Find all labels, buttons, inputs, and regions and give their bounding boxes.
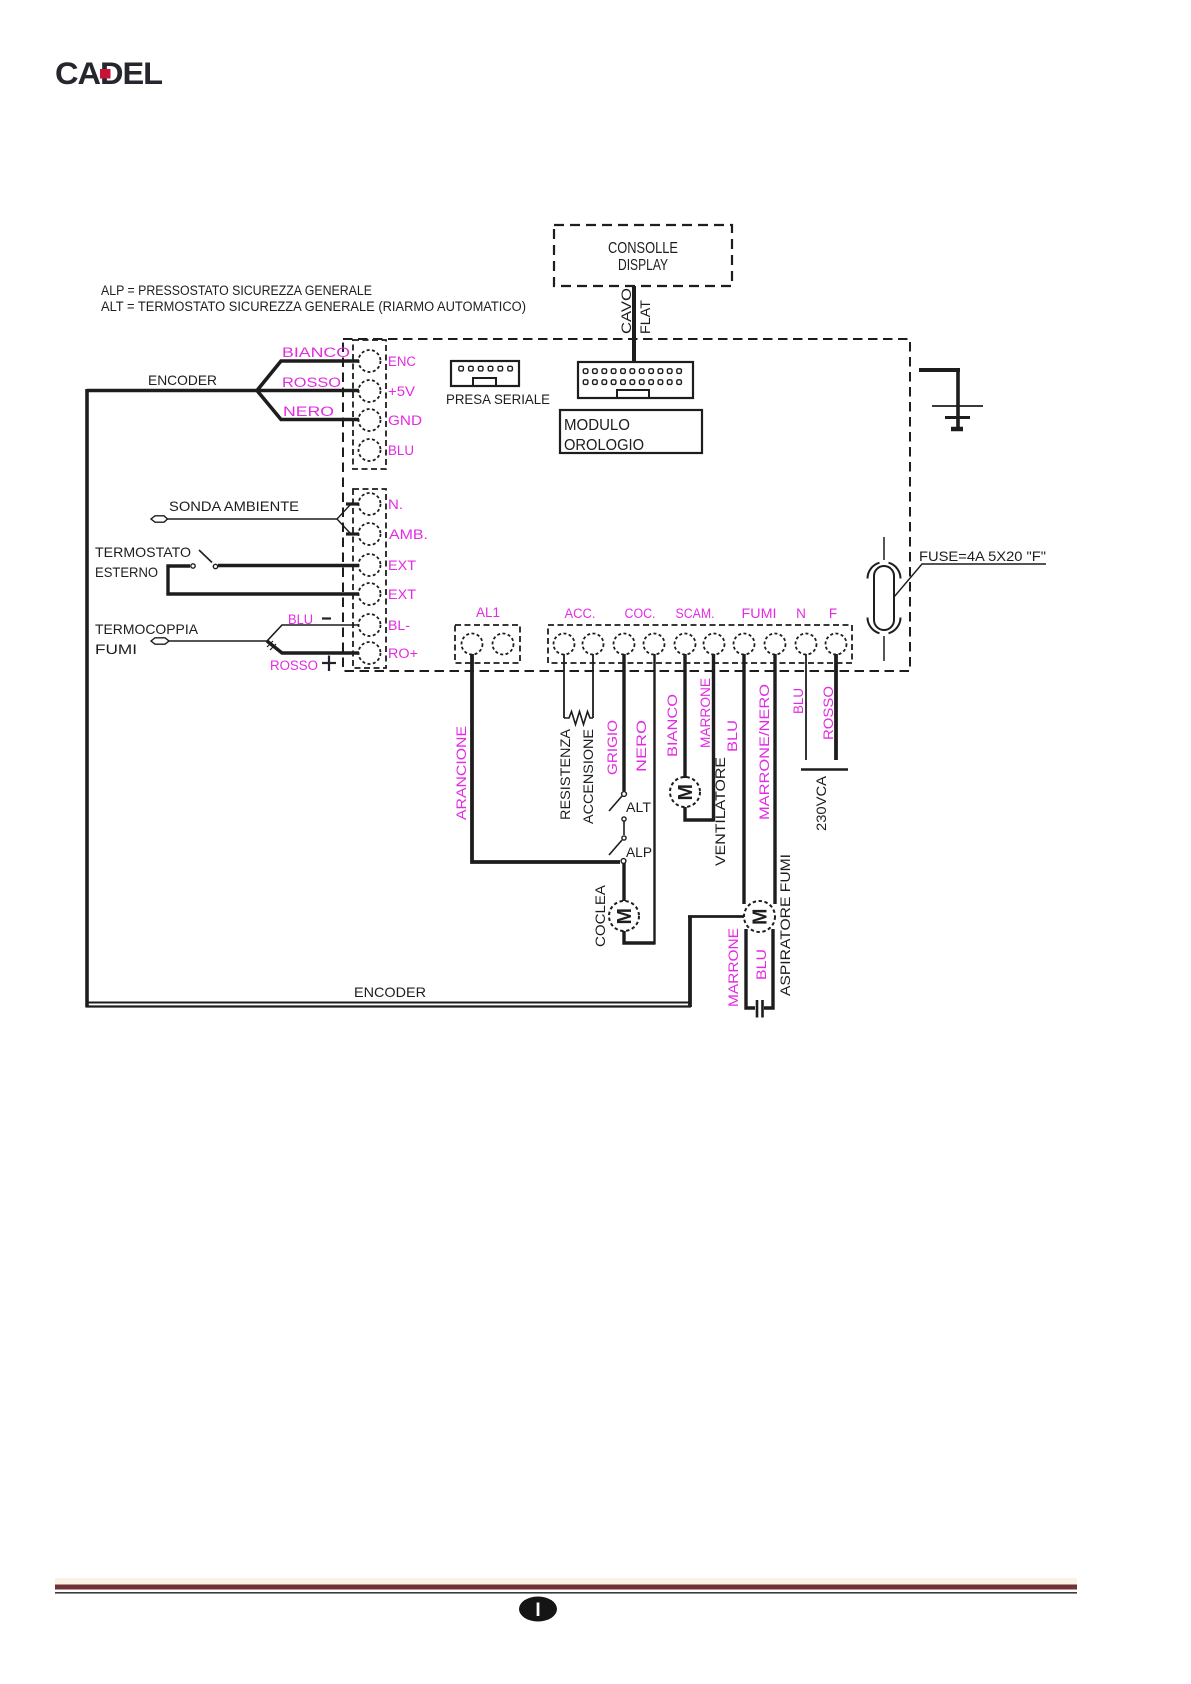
svg-text:230VCA: 230VCA [814,776,829,831]
terminal COC-2 [644,634,665,655]
connector AL1 dashed housing [455,625,520,663]
flat connector pins row 1 [583,369,681,374]
svg-text:MARRONE: MARRONE [726,928,741,1007]
footer thin rule [55,1592,1077,1594]
wire termocoppia [169,640,267,642]
wire encoder riser [688,916,692,1007]
svg-text:ROSSO: ROSSO [270,658,318,673]
motor ASPIRATORE FUMI [744,901,775,932]
svg-text:ALT: ALT [626,799,651,815]
J2 pin circle EXT1 [359,554,381,576]
svg-text:ENC: ENC [388,354,416,369]
switch contact circle right [213,564,217,568]
J1 pin circle GND [359,409,381,431]
svg-text:ALP: ALP [626,844,652,860]
svg-text:ALP = PRESSOSTATO SICUREZZA GE: ALP = PRESSOSTATO SICUREZZA GENERALE [101,283,372,298]
page number badge I [519,1597,557,1622]
svg-text:AMB.: AMB. [389,527,428,542]
svg-text:I: I [535,1600,540,1621]
svg-text:ROSSO: ROSSO [821,686,836,740]
terminal SCAM-1 [675,634,696,655]
wire BLU fumi [742,654,745,904]
svg-text:NERO: NERO [283,404,334,419]
wire MARRONE (scam) [712,654,715,822]
svg-text:RO+: RO+ [388,646,418,661]
svg-text:M: M [675,784,697,801]
wire encoder left vertical [85,389,89,1007]
wire ACC right [592,654,594,718]
svg-text:OROLOGIO: OROLOGIO [564,437,644,454]
sonda probe symbol [151,516,168,522]
output terminal strip dashed housing [548,625,852,663]
svg-text:ESTERNO: ESTERNO [95,564,158,580]
wire NERO [653,654,655,945]
minus sign [322,617,331,619]
svg-text:ENCODER: ENCODER [148,372,217,388]
svg-text:BLU: BLU [725,720,740,752]
terminal COC-1 [614,634,635,655]
J1 pin circle BLU [359,439,381,461]
switch ALT blade [609,796,622,811]
wire MARRONE/NERO fumi [773,654,776,904]
wire encoder bottom double line lower [86,1005,692,1007]
svg-text:CONSOLLE: CONSOLLE [608,240,678,257]
switch ALT contact bottom [622,817,626,821]
wire ROSSO to +5V [257,389,359,393]
J1 pin circle +5V [359,380,381,402]
J1 pin circle ENC [359,350,381,372]
wire stub N [346,502,359,505]
wire ROSSO to RO+ [267,641,359,653]
presa seriale pins [459,366,513,371]
consolle display box [554,225,732,286]
svg-text:FLAT: FLAT [638,300,653,334]
flat connector pins row 2 [583,380,681,385]
svg-text:EXT: EXT [388,558,416,573]
wire BIANCO to ventilatore [683,654,686,778]
svg-text:BLU: BLU [791,688,806,714]
svg-text:FUSE=4A 5X20 "F": FUSE=4A 5X20 "F" [919,548,1046,564]
wire sonda branch AMB [337,519,352,534]
wire cavo flat [632,286,636,362]
wire ventilatore bottom to MARRONE [685,807,714,820]
modulo orologio box [560,410,702,454]
presa seriale connector [451,361,519,386]
svg-text:BLU: BLU [288,612,313,627]
wire N (BLU) [805,654,807,760]
svg-text:ASPIRATORE FUMI: ASPIRATORE FUMI [778,854,793,996]
terminal AL1-2 [493,634,514,655]
svg-text:FUMI: FUMI [95,641,137,657]
wire ACC left [563,654,565,718]
motor VENTILATORE [670,777,700,807]
wire coclea bottom to NERO [624,931,655,943]
switch contact circle left [191,564,195,568]
wire ARANCIONE (AL1 to ALP) [472,654,620,862]
svg-text:BL-: BL- [388,618,410,633]
wire NERO to GND [257,391,359,420]
svg-text:N.: N. [388,497,403,512]
terminal SCAM-2 [704,634,725,655]
capacitor C1 [757,1000,763,1018]
switch ALP contact bottom [621,859,626,864]
svg-text:COC.: COC. [625,606,656,621]
wire ALP to coclea motor [622,863,625,901]
svg-text:M: M [750,909,772,926]
J2 pin circle EXT2 [359,583,381,605]
svg-text:TERMOSTATO: TERMOSTATO [95,544,191,560]
fuse F1 [868,537,901,661]
svg-text:SCAM.: SCAM. [676,606,715,621]
wire encoder trunk [87,389,257,393]
control board outline (dashed) [343,339,910,671]
svg-text:F: F [829,606,837,621]
wire EXT1 from switch [218,564,359,568]
svg-text:PRESA SERIALE: PRESA SERIALE [446,391,550,407]
wire sonda branch N [337,504,352,519]
wire F (ROSSO) [834,654,838,760]
svg-text:DISPLAY: DISPLAY [618,257,668,274]
svg-text:VENTILATORE: VENTILATORE [713,757,728,866]
switch termostato esterno blade [199,550,212,563]
svg-text:ALT = TERMOSTATO SICUREZZA GEN: ALT = TERMOSTATO SICUREZZA GENERALE (RIA… [101,299,526,314]
svg-text:EXT: EXT [388,587,416,602]
svg-text:BIANCO: BIANCO [282,345,350,360]
svg-text:GRIGIO: GRIGIO [605,720,620,775]
switch ALT contact top [622,792,627,797]
flat cable connector [578,362,693,398]
terminal FUMI-1 [734,634,755,655]
wire aspiratore BLU bottom [764,929,773,1008]
connector J2 (inputs) dashed housing [353,489,386,668]
terminal ACC-2 [583,634,604,655]
switch ALP contact top [622,836,626,840]
wire sonda [168,518,338,520]
wire GRIGIO [622,654,625,791]
svg-text:M: M [614,908,636,925]
wire aspiratore MARRONE bottom [746,929,755,1008]
terminal FUMI-2 [765,634,786,655]
svg-text:ACCENSIONE: ACCENSIONE [581,729,596,824]
svg-text:CAVO: CAVO [619,288,634,334]
terminal AL1-1 [462,634,483,655]
wire EXT2 L-shape [168,566,359,594]
footer maroon rule [55,1585,1077,1590]
svg-text:ENCODER: ENCODER [354,984,426,1000]
footer cream band [55,1578,1077,1585]
J2 pin circle AMB. [359,523,381,545]
svg-text:MODULO: MODULO [564,417,630,434]
J2 pin circle RO+ [359,642,381,664]
svg-text:FUMI: FUMI [742,606,777,621]
wire BLU to BL- [267,625,359,641]
J2 pin circle N. [359,493,381,515]
connector J1 (encoder) dashed housing [353,340,386,469]
svg-text:ROSSO: ROSSO [282,375,341,390]
230VCA bar [801,768,848,770]
svg-text:NERO: NERO [634,720,649,772]
svg-text:SONDA AMBIENTE: SONDA AMBIENTE [169,498,299,514]
ground symbol [919,368,983,429]
svg-text:ARANCIONE: ARANCIONE [454,726,469,820]
switch ALP blade [609,840,622,855]
fuse leader line [894,564,1046,597]
svg-text:BLU: BLU [388,443,414,458]
svg-text:ACC.: ACC. [565,606,596,621]
svg-text:AL1: AL1 [476,605,500,620]
terminal F [826,634,847,655]
wire between ALT and ALP [623,821,625,835]
wire stub AMB [346,532,359,535]
svg-text:RESISTENZA: RESISTENZA [558,729,573,820]
svg-text:COCLEA: COCLEA [593,885,608,947]
wire encoder bottom double line upper [87,1002,689,1004]
termocoppia probe symbol [151,638,169,644]
thermocouple junction marks [267,641,273,647]
svg-text:BIANCO: BIANCO [665,694,680,757]
resistor RESISTENZA ACCENSIONE [564,712,593,725]
svg-text:MARRONE/NERO: MARRONE/NERO [757,684,772,820]
wire encoder to aspiratore [688,915,744,918]
svg-text:TERMOCOPPIA: TERMOCOPPIA [95,621,199,637]
J2 pin circle BL- [359,614,381,636]
plus sign [322,656,336,672]
motor COCLEA [609,901,639,931]
svg-text:GND: GND [388,413,422,428]
svg-text:BLU: BLU [754,949,769,980]
svg-text:MARRONE: MARRONE [698,678,713,748]
terminal N [796,634,817,655]
terminal ACC-1 [554,634,575,655]
svg-text:+5V: +5V [388,384,415,399]
CADEL logo [55,55,163,91]
svg-text:N: N [796,606,806,621]
wire BIANCO to ENC [257,361,359,391]
